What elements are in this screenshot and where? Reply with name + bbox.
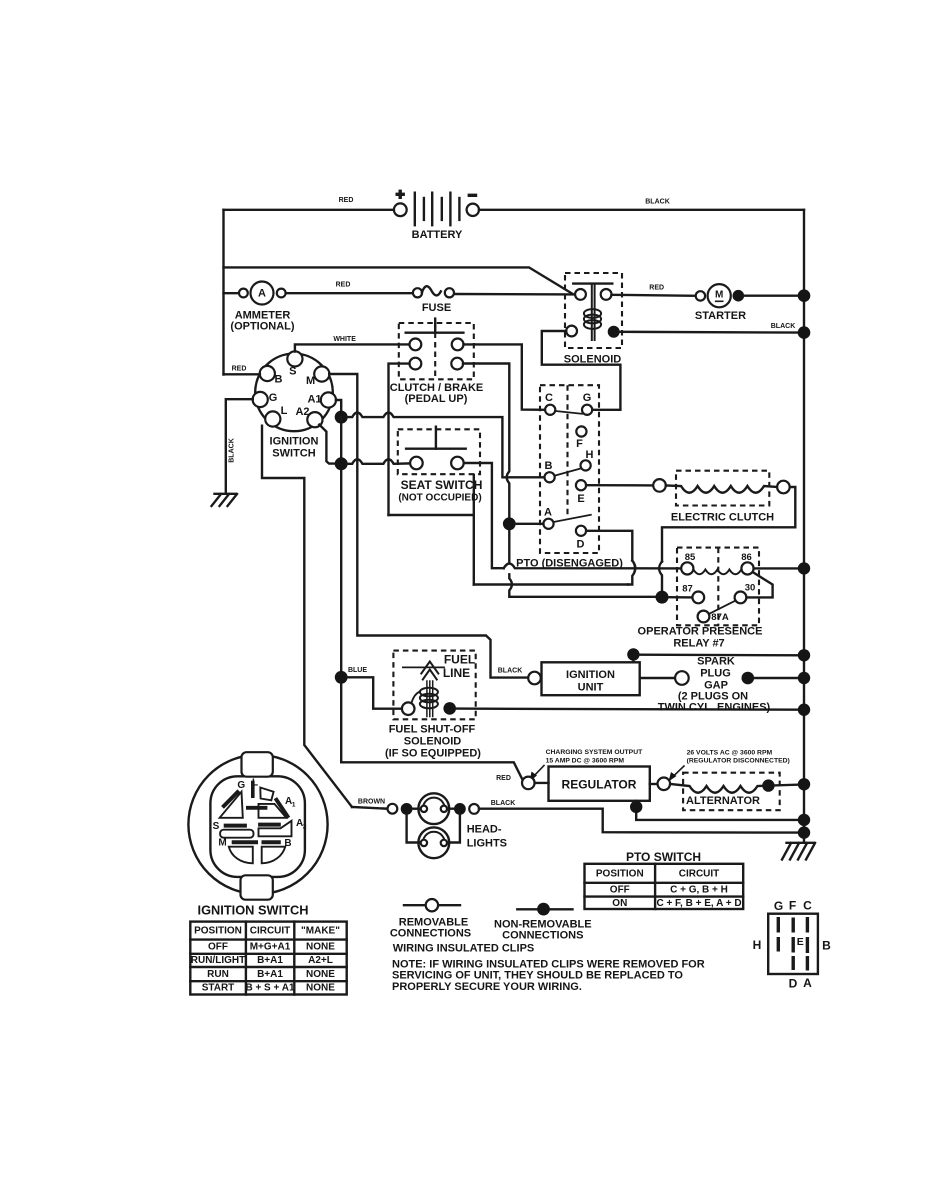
svg-text:F: F <box>576 438 583 450</box>
wire starter to right bus <box>744 295 804 297</box>
svg-text:SOLENOID: SOLENOID <box>404 736 462 748</box>
wire label loop bottom (seat switch) <box>389 514 474 516</box>
slot A1 bar <box>275 798 288 818</box>
svg-text:B+A1: B+A1 <box>257 955 283 966</box>
junction headlight 2 <box>454 803 466 815</box>
svg-text:IGNITION SWITCH: IGNITION SWITCH <box>198 903 309 918</box>
svg-text:RUN: RUN <box>207 969 229 980</box>
svg-text:G: G <box>237 780 245 791</box>
note text <box>392 958 705 993</box>
svg-text:B+A1: B+A1 <box>257 969 283 980</box>
clutch/brake switch S2 <box>390 319 484 405</box>
svg-text:BLACK: BLACK <box>498 668 523 675</box>
wire solenoid to starter <box>612 295 696 296</box>
svg-text:M+G+A1: M+G+A1 <box>250 942 291 953</box>
slot mid bar <box>246 806 267 810</box>
svg-text:RUN/LIGHT: RUN/LIGHT <box>191 955 245 966</box>
svg-text:STARTER: STARTER <box>695 310 746 322</box>
svg-text:(PEDAL UP): (PEDAL UP) <box>405 393 468 405</box>
svg-text:RED: RED <box>339 197 354 204</box>
junction relay 87 feed <box>656 591 669 604</box>
svg-text:A2+L: A2+L <box>308 955 333 966</box>
svg-text:WIRING INSULATED CLIPS: WIRING INSULATED CLIPS <box>393 943 535 955</box>
svg-text:(NOT OCCUPIED): (NOT OCCUPIED) <box>398 493 481 504</box>
electric clutch L1 <box>653 471 790 524</box>
wire ammeter feed <box>224 292 240 294</box>
label CHARGING SYSTEM OUTPUT <box>530 749 644 782</box>
wedge top-right <box>260 788 273 801</box>
wedge right lower <box>259 821 292 837</box>
svg-text:B: B <box>545 460 553 472</box>
wire PTO E to electric clutch <box>586 484 653 487</box>
wire regulator to alternator connector <box>650 783 658 785</box>
svg-text:BROWN: BROWN <box>358 799 385 806</box>
headlight DS2 <box>407 814 460 858</box>
wedge top-left <box>220 792 243 818</box>
slot center bar <box>251 781 255 798</box>
connector alternator <box>658 778 671 791</box>
svg-text:CHARGING SYSTEM OUTPUT: CHARGING SYSTEM OUTPUT <box>546 749 644 756</box>
junction headlight return/bus <box>798 826 810 838</box>
svg-text:OPERATOR PRESENCE: OPERATOR PRESENCE <box>638 626 763 638</box>
legend non-removable connection <box>494 903 592 942</box>
svg-text:RED: RED <box>336 282 351 289</box>
connector regulator input <box>522 777 535 790</box>
wire clutch/brake lower-left down (to D loop) <box>389 364 410 515</box>
wire ignition unit top tap to right bus <box>627 648 810 662</box>
PTO switch table <box>585 850 744 909</box>
svg-text:D: D <box>789 976 798 990</box>
wire battery loop to solenoid <box>224 267 573 293</box>
svg-text:NONE: NONE <box>306 942 335 953</box>
svg-text:PTO SWITCH: PTO SWITCH <box>626 850 701 864</box>
solenoid K1 <box>564 273 622 366</box>
label 26 VOLTS AC <box>669 749 790 781</box>
svg-text:85: 85 <box>685 552 696 563</box>
junction starter/bus <box>798 289 811 302</box>
wire PTO D to D loop <box>586 531 635 585</box>
junction headlight 1 <box>401 803 413 815</box>
svg-text:FUSE: FUSE <box>422 302 451 314</box>
ignition switch connector (face view) <box>188 752 327 900</box>
wire lights feed from ignition switch L (staircase + diagonal) <box>262 426 352 807</box>
wire seat switch right to relay 85 <box>464 463 682 568</box>
wire to seat switch (hops M and clutch lines) <box>347 459 410 464</box>
svg-text:(OPTIONAL): (OPTIONAL) <box>230 320 294 332</box>
wedge bottom-right <box>262 847 286 864</box>
wire left bus to regulator (RED) <box>341 762 522 779</box>
svg-text:C + F, B + E, A + D: C + F, B + E, A + D <box>656 898 741 909</box>
svg-text:ALTERNATOR: ALTERNATOR <box>686 795 760 807</box>
svg-text:OFF: OFF <box>610 885 630 896</box>
svg-text:A: A <box>803 976 812 990</box>
svg-text:BATTERY: BATTERY <box>412 229 463 241</box>
svg-text:POSITION: POSITION <box>194 926 242 937</box>
wire fuel solenoid output to right bus <box>456 709 804 710</box>
wire PTO A to junction <box>515 523 543 525</box>
svg-text:A1: A1 <box>307 394 321 406</box>
svg-text:87: 87 <box>682 584 693 595</box>
wire regulator ground stub to bus <box>630 801 810 826</box>
svg-text:A: A <box>258 288 266 300</box>
regulator U2 <box>549 767 650 801</box>
ignition switch table <box>190 922 346 995</box>
slot left mid outline <box>220 830 253 838</box>
svg-text:"MAKE": "MAKE" <box>301 926 340 937</box>
svg-text:A: A <box>544 507 552 519</box>
wire B terminal to left feed <box>224 373 260 375</box>
fuel shut-off solenoid L2 <box>393 651 475 720</box>
svg-text:26 VOLTS AC @ 3600 RPM: 26 VOLTS AC @ 3600 RPM <box>687 749 773 756</box>
seat switch S3 <box>398 427 483 504</box>
svg-text:E: E <box>797 936 804 948</box>
svg-text:FUEL SHUT-OFF: FUEL SHUT-OFF <box>389 724 476 736</box>
wire D loop vertical <box>473 475 475 585</box>
wire headlights return to right bus <box>479 809 804 833</box>
wire alternator to right bus <box>774 783 804 786</box>
svg-text:REGULATOR: REGULATOR <box>562 778 637 792</box>
svg-text:WHITE: WHITE <box>333 336 356 343</box>
svg-text:ON: ON <box>612 898 627 909</box>
wire BLUE to fuel shut-off solenoid <box>347 677 402 708</box>
svg-text:PROPERLY SECURE YOUR WIRING.: PROPERLY SECURE YOUR WIRING. <box>392 981 582 993</box>
svg-text:START: START <box>202 983 235 994</box>
svg-text:G: G <box>774 899 783 913</box>
svg-text:A2: A2 <box>295 406 309 418</box>
svg-text:H: H <box>586 449 594 461</box>
svg-text:SERVICING OF UNIT, THEY SHOULD: SERVICING OF UNIT, THEY SHOULD BE REPLAC… <box>392 970 683 982</box>
svg-text:L: L <box>252 777 258 788</box>
svg-text:RELAY #7: RELAY #7 <box>673 638 724 650</box>
slot A2 bar <box>258 823 281 827</box>
svg-text:C + G, B + H: C + G, B + H <box>670 885 728 896</box>
wire solenoid lower-left to PTO G <box>542 331 621 410</box>
svg-text:PTO (DISENGAGED): PTO (DISENGAGED) <box>516 558 623 570</box>
svg-text:CIRCUIT: CIRCUIT <box>679 868 720 879</box>
svg-text:B + S + A1: B + S + A1 <box>245 983 295 994</box>
slot M-B bars <box>232 840 258 844</box>
alternator G1 <box>670 773 780 811</box>
svg-text:LINE: LINE <box>443 666 470 680</box>
svg-text:BLACK: BLACK <box>491 800 516 807</box>
slot G bar <box>223 791 239 808</box>
svg-text:F: F <box>789 898 796 912</box>
svg-text:SPARK: SPARK <box>697 656 735 668</box>
svg-text:SWITCH: SWITCH <box>272 447 315 459</box>
wire G terminal to ground <box>226 399 253 493</box>
ignition unit U1 <box>528 662 640 695</box>
ignition switch S1 <box>253 351 336 459</box>
svg-text:BLACK: BLACK <box>645 199 670 206</box>
svg-text:RED: RED <box>496 775 511 782</box>
svg-text:B: B <box>275 374 283 386</box>
wire M terminal down to fuel shutoff / ignition unit <box>329 374 528 678</box>
svg-text:30: 30 <box>745 583 756 594</box>
svg-text:C: C <box>803 899 812 913</box>
wire battery positive to left bus <box>224 209 394 211</box>
ground (right bus) <box>782 843 815 860</box>
svg-text:ELECTRIC CLUTCH: ELECTRIC CLUTCH <box>671 512 774 524</box>
svg-text:RED: RED <box>649 285 664 292</box>
fuse F1 <box>413 286 454 314</box>
svg-text:BLACK: BLACK <box>229 438 236 463</box>
PTO switch S4 (disengaged) <box>540 385 599 553</box>
svg-text:86: 86 <box>741 552 752 563</box>
svg-text:UNIT: UNIT <box>578 682 604 694</box>
svg-text:(REGULATOR DISCONNECTED): (REGULATOR DISCONNECTED) <box>687 758 790 765</box>
svg-text:SEAT SWITCH: SEAT SWITCH <box>401 478 483 492</box>
svg-text:HEAD-: HEAD- <box>467 824 502 836</box>
svg-text:CONNECTIONS: CONNECTIONS <box>390 928 471 940</box>
svg-text:M: M <box>306 375 315 387</box>
wire S terminal to clutch/brake (WHITE) <box>295 344 410 351</box>
wedge right upper <box>259 804 287 818</box>
svg-text:LIGHTS: LIGHTS <box>467 838 507 850</box>
svg-text:C: C <box>545 392 553 404</box>
PTO connector (face view) <box>753 898 832 990</box>
svg-text:15 AMP DC @ 3600 RPM: 15 AMP DC @ 3600 RPM <box>546 757 625 764</box>
svg-text:G: G <box>269 392 278 404</box>
svg-text:FUEL: FUEL <box>444 653 475 667</box>
wire A1 terminal to junction <box>336 400 341 412</box>
wire A2 terminal elbow to seat feed junction <box>319 425 341 464</box>
wire A1/A2 to PTO B (hops M and clutch lines) <box>347 413 545 478</box>
wire fuse to solenoid <box>454 293 575 296</box>
right bus wire <box>803 210 805 843</box>
svg-text:PLUG: PLUG <box>700 668 731 680</box>
svg-text:B: B <box>822 938 831 952</box>
ground (ignition switch) <box>212 494 238 506</box>
wire electric clutch return to relay 87 junction <box>659 487 795 591</box>
svg-text:S: S <box>289 366 296 378</box>
left bus wire (A1/A2 down) <box>340 417 342 762</box>
svg-text:IGNITION: IGNITION <box>566 669 615 681</box>
slot S bar <box>224 824 247 828</box>
wire BROWN to headlights <box>352 807 388 809</box>
ammeter M1 (optional) <box>230 282 294 333</box>
wire solenoid output to right bus <box>620 331 804 334</box>
svg-text:CONNECTIONS: CONNECTIONS <box>502 930 583 942</box>
svg-text:NONE: NONE <box>306 983 335 994</box>
svg-text:BLACK: BLACK <box>771 323 796 330</box>
svg-text:L: L <box>281 405 288 417</box>
svg-text:RED: RED <box>232 366 247 373</box>
junction 86/bus <box>798 562 810 574</box>
svg-text:(IF SO EQUIPPED): (IF SO EQUIPPED) <box>385 748 481 760</box>
svg-text:TWIN CYL. ENGINES): TWIN CYL. ENGINES) <box>658 702 771 714</box>
battery BT1 <box>394 190 479 241</box>
svg-text:CIRCUIT: CIRCUIT <box>250 926 291 937</box>
junction BLUE tap on left bus <box>335 671 348 684</box>
svg-text:M: M <box>715 290 723 301</box>
wire relay 86 blade to 30 <box>747 572 773 597</box>
wire D loop to PTO D vertical <box>474 583 628 585</box>
junction solenoid/bus <box>798 326 811 339</box>
svg-text:E: E <box>577 493 584 505</box>
svg-text:1: 1 <box>292 801 296 808</box>
svg-text:OFF: OFF <box>208 942 228 953</box>
wire ammeter to fuse <box>286 292 413 294</box>
legend removable connection <box>390 899 471 940</box>
wire battery negative to right bus <box>479 209 804 211</box>
connector headlight feed <box>388 804 398 814</box>
svg-text:NONE: NONE <box>306 969 335 980</box>
wire left feed vertical <box>222 210 224 375</box>
wire to regulator <box>535 782 549 784</box>
svg-text:S: S <box>213 821 220 832</box>
spark plug gap E1 <box>640 656 811 714</box>
wire junction to relay 87 <box>668 596 693 599</box>
svg-text:B: B <box>284 838 291 849</box>
svg-text:IGNITION: IGNITION <box>270 435 319 447</box>
headlight DS1 <box>412 793 454 824</box>
operator presence relay K2 <box>677 548 759 626</box>
svg-text:2: 2 <box>303 823 307 830</box>
wedge bottom-left <box>229 847 253 864</box>
starter M2 <box>695 284 746 322</box>
svg-text:87A: 87A <box>711 612 729 623</box>
connector headlight return <box>469 804 479 814</box>
svg-text:D: D <box>577 539 585 551</box>
wire clutch/brake lower-right down (to A / relay 87) <box>463 364 656 597</box>
wire clutch/brake upper-right to PTO C <box>464 344 546 409</box>
svg-text:POSITION: POSITION <box>596 868 644 879</box>
junction seat switch feed <box>335 457 348 470</box>
svg-text:H: H <box>753 938 762 952</box>
wire relay 86 to right bus <box>754 567 804 569</box>
svg-text:M: M <box>218 837 226 848</box>
junction alternator/bus <box>798 778 810 790</box>
svg-text:BLUE: BLUE <box>348 667 367 674</box>
svg-text:G: G <box>583 392 592 404</box>
junction A feed <box>503 517 516 530</box>
junction A1/A2 <box>335 411 348 424</box>
junction fuel wire/bus <box>798 704 810 716</box>
